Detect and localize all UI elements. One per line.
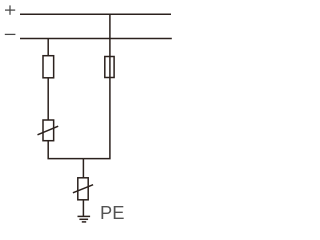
wire junction to PE varistor <box>82 159 84 178</box>
wire left branch: negative bus to resistor <box>47 39 49 56</box>
varistor (to PE) <box>73 178 93 200</box>
varistor (left branch) <box>38 120 59 141</box>
wire left branch: varistor to bottom node <box>48 141 83 159</box>
wire positive bus <box>20 13 171 15</box>
wire negative bus <box>20 38 172 40</box>
resistor (left branch) <box>43 56 54 78</box>
wire right branch: positive bus through fuse down to bottom node <box>83 14 110 158</box>
label + (positive terminal) <box>5 5 15 14</box>
fuse (right branch) <box>105 57 114 78</box>
ground PE (earth symbol) <box>78 216 91 222</box>
wire left branch: resistor to varistor <box>47 78 49 120</box>
label PE <box>100 206 124 220</box>
label − (negative terminal) <box>5 33 16 35</box>
wire PE varistor to ground <box>82 200 84 217</box>
